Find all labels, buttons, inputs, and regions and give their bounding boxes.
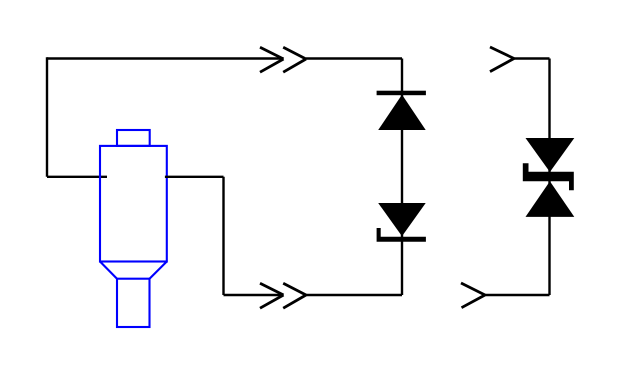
wire: bottom horizontal right segment (306, 294, 402, 296)
wire: left vertical (46, 57, 48, 177)
spark plug P1 (blue component) (100, 130, 167, 327)
wire: spark plug right terminal (165, 176, 224, 178)
connector arrow J3 (chevron, top right) (490, 47, 514, 72)
wire: to spark plug left terminal (47, 176, 107, 178)
connector arrows J2 (double chevron, bottom wire) (260, 283, 306, 308)
diode D2 triangle (pointing down) (378, 203, 426, 236)
wire: right branch vertical (548, 59, 550, 296)
TVS D3 bottom triangle (pointing up) (526, 181, 575, 217)
connector arrow J4 (chevron, bottom right) (461, 283, 485, 308)
diode D1 cathode bar (377, 91, 426, 96)
wire: top horizontal right segment (306, 57, 402, 59)
wire: middle vertical (222, 177, 224, 295)
TVS D3 bar (Z-shaped bidirectional cathode) (523, 163, 574, 190)
diode D2 cathode bar with zener bend (377, 228, 426, 242)
wire: diode branch vertical (401, 59, 403, 296)
wire: top horizontal left segment (47, 57, 284, 59)
wire: bottom horizontal left segment (224, 294, 284, 296)
diode D1 triangle (pointing up) (378, 95, 426, 130)
wire: top right horizontal (514, 57, 550, 59)
TVS D3 top triangle (pointing down) (526, 138, 575, 172)
connector arrows J1 (double chevron, top wire) (260, 47, 306, 72)
wire: bottom right horizontal (485, 294, 550, 296)
